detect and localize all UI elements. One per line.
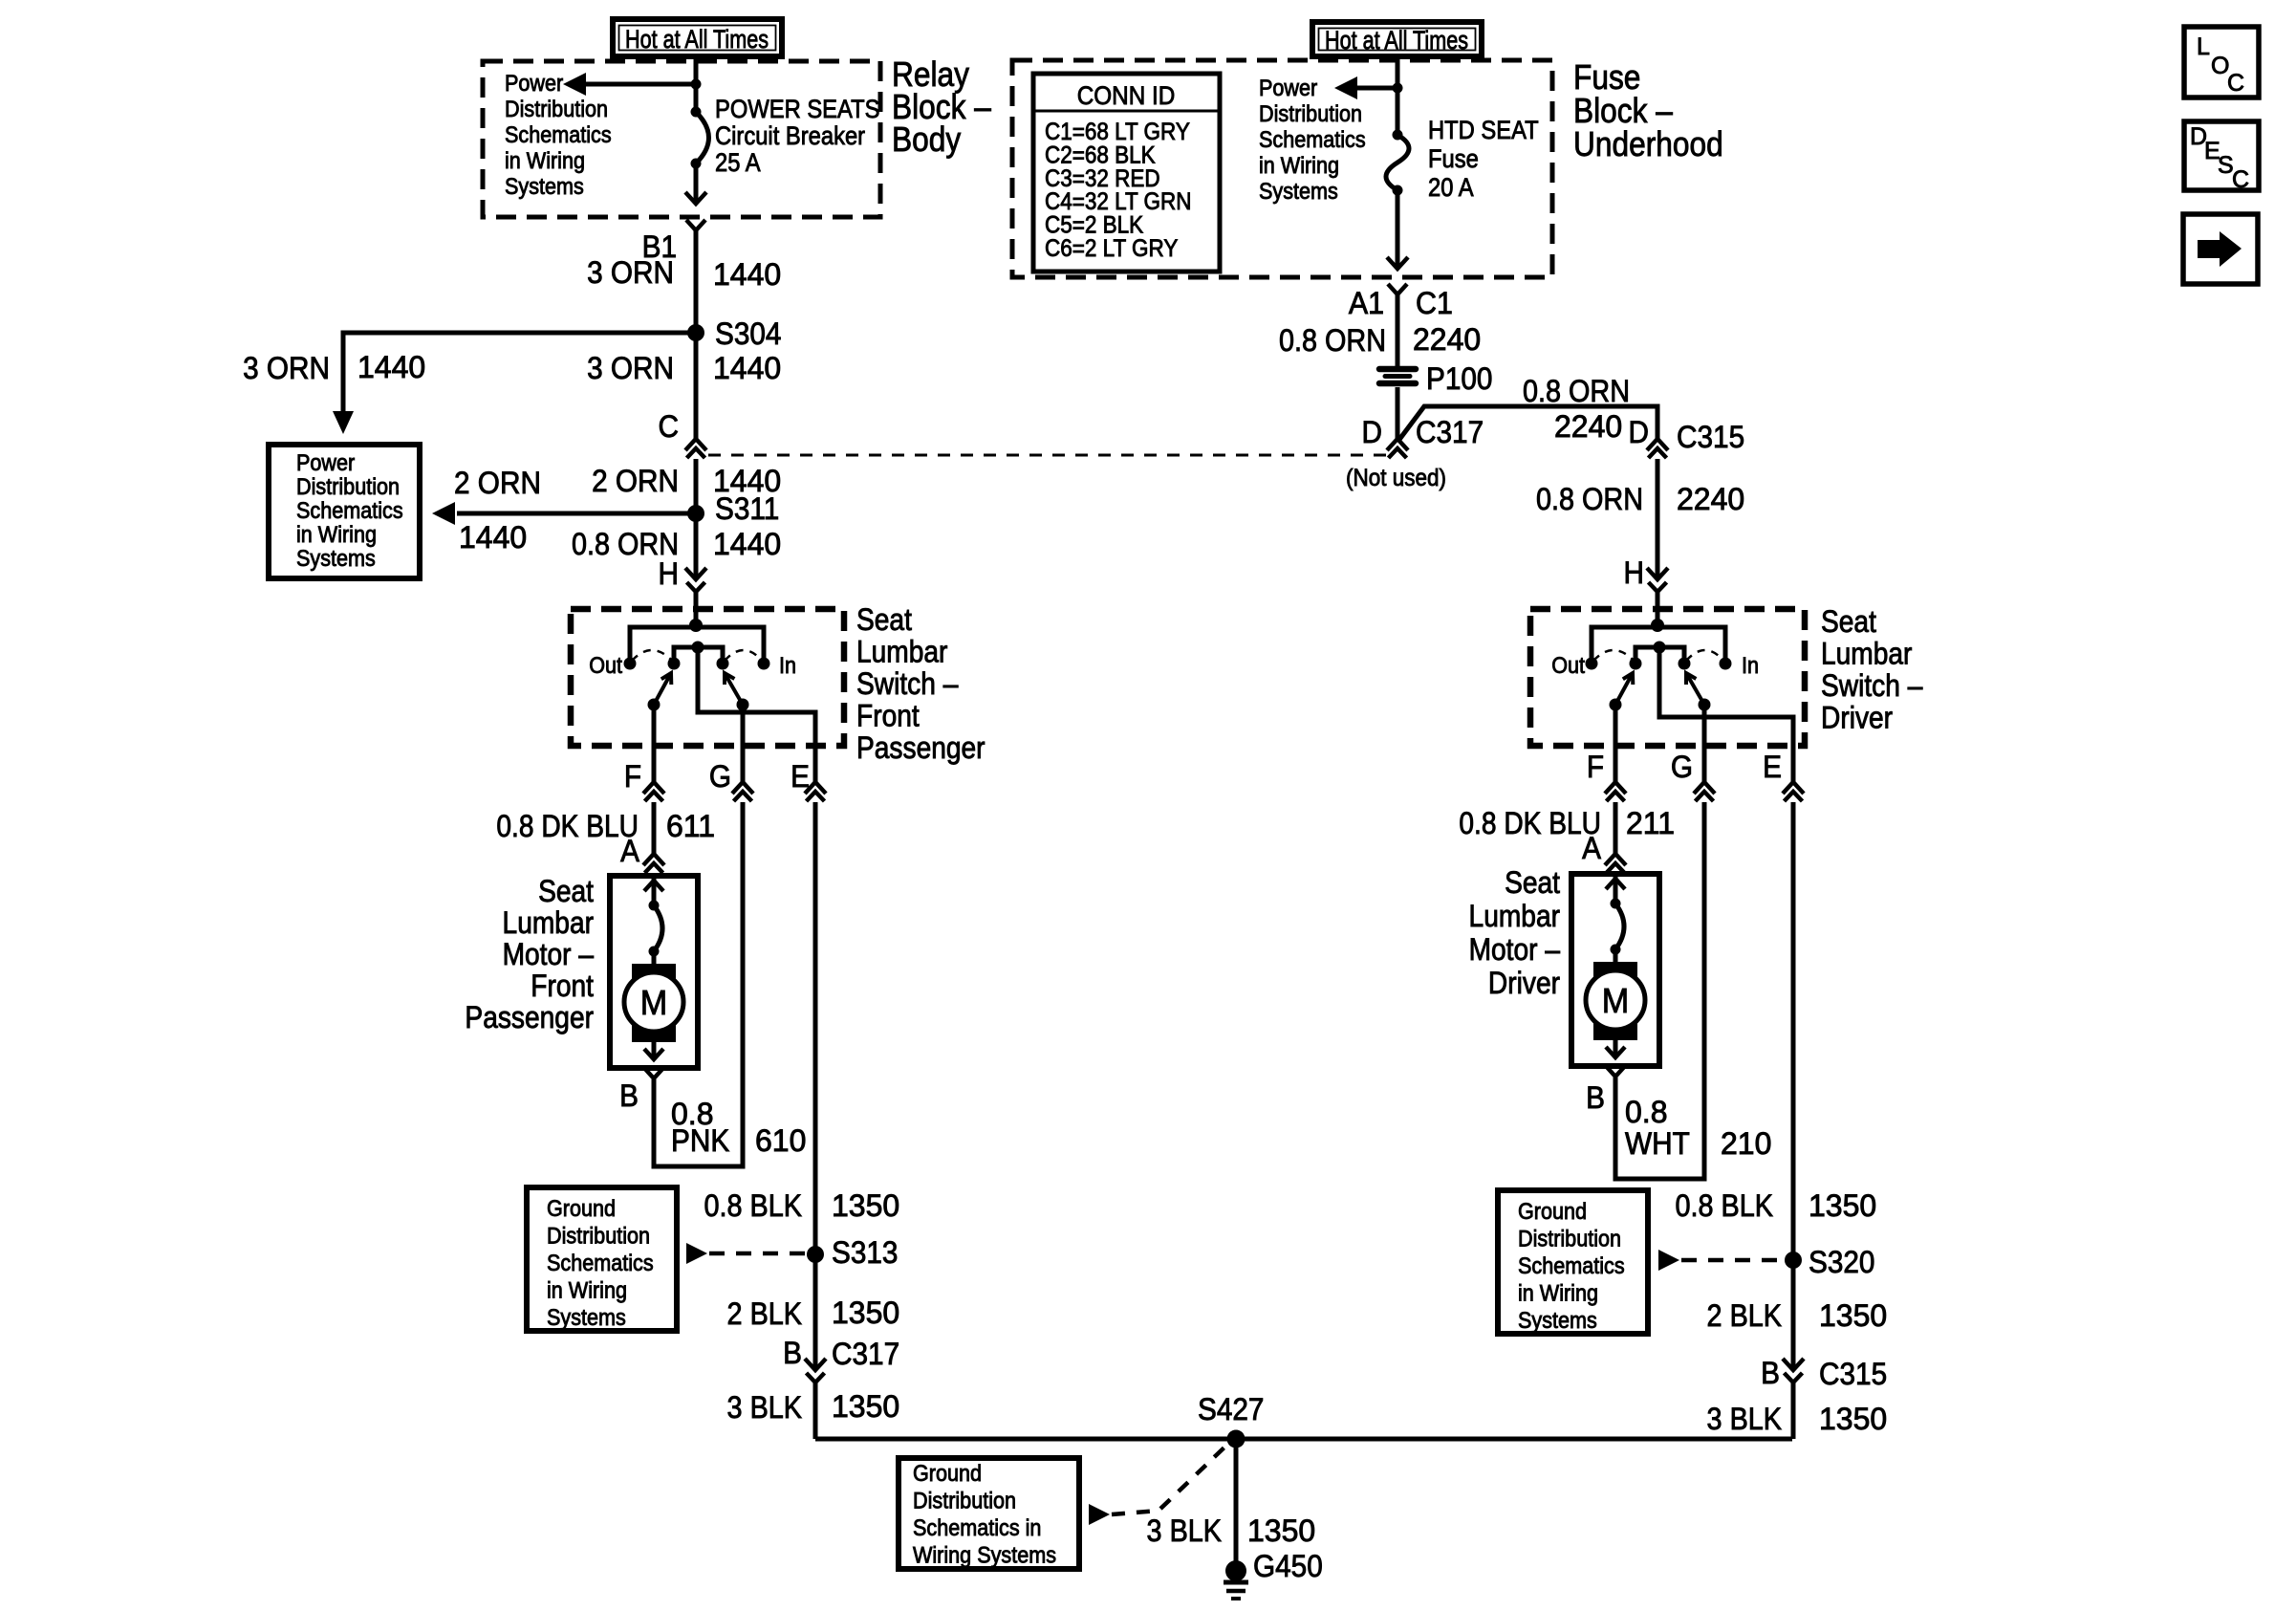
svg-text:Power: Power — [1259, 75, 1318, 100]
svg-text:P100: P100 — [1426, 361, 1492, 396]
wire F to motor A (0.8 DK BLU 611) — [652, 802, 657, 854]
svg-text:3 ORN: 3 ORN — [587, 255, 674, 290]
label HTD SEAT Fuse 20 A — [1428, 117, 1539, 203]
switch contacts and arms (driver) — [1586, 619, 1732, 711]
connector H (passenger switch) — [659, 556, 706, 592]
svg-text:Front: Front — [531, 969, 594, 1003]
splice S320 — [1785, 1245, 1874, 1279]
wire C315 to H (0.8 ORN 2240) — [1656, 459, 1660, 579]
wire F to motor A (0.8 DK BLU 211) — [1614, 802, 1618, 854]
wire B1 to S304 (3 ORN 1440) — [694, 230, 699, 333]
connector C315 pin B — [1761, 1356, 1887, 1391]
svg-text:M: M — [1602, 982, 1629, 1020]
wire switch arm to F terminal (driver) — [1614, 705, 1618, 782]
wire C315 to ground bus (3 BLK 1350) — [1791, 1382, 1796, 1439]
svg-text:C: C — [2227, 70, 2244, 97]
svg-text:S320: S320 — [1809, 1245, 1874, 1279]
label Seat Lumbar Motor - Front Passenger — [465, 875, 594, 1034]
svg-text:Underhood: Underhood — [1573, 125, 1723, 163]
svg-text:2240: 2240 — [1413, 322, 1481, 357]
svg-text:in Wiring: in Wiring — [296, 521, 377, 547]
svg-text:0.8 DK BLU: 0.8 DK BLU — [1459, 807, 1601, 840]
svg-text:H: H — [659, 556, 679, 591]
svg-text:1350: 1350 — [1809, 1188, 1876, 1223]
svg-text:611: 611 — [666, 809, 715, 843]
fuse HTD SEAT 20 A — [1386, 130, 1409, 196]
svg-text:HTD SEAT: HTD SEAT — [1428, 117, 1539, 145]
svg-text:2 ORN: 2 ORN — [592, 464, 679, 498]
dashed wire C to C317 (not used) — [708, 454, 1386, 457]
svg-text:(Not used): (Not used) — [1346, 465, 1446, 491]
wire motor B to switch G (0.8 PNK 610) — [654, 802, 743, 1166]
svg-text:610: 610 — [755, 1123, 806, 1158]
svg-text:C317: C317 — [832, 1337, 899, 1371]
connector E (passenger) — [791, 759, 826, 801]
dashed leader ground distribution to S320 — [1658, 1250, 1785, 1271]
svg-text:G450: G450 — [1253, 1549, 1323, 1583]
svg-text:G: G — [1671, 750, 1693, 784]
label 3 ORN 1440 (above S304) — [587, 255, 781, 292]
svg-text:3 BLK: 3 BLK — [1707, 1403, 1782, 1437]
label 2 BLK 1350 (passenger) — [727, 1295, 900, 1331]
label 0.8 ORN 1440 (below S311) — [572, 527, 781, 561]
connector A (driver motor) — [1582, 831, 1626, 873]
wire E to S320 (0.8 BLK 1350) — [1791, 802, 1796, 1260]
svg-text:Systems: Systems — [1259, 178, 1338, 204]
connector C315 pin D — [1629, 415, 1745, 458]
label 0.8 ORN 2240 (above driver H) — [1536, 482, 1744, 516]
svg-text:0.8 ORN: 0.8 ORN — [1279, 324, 1386, 359]
svg-text:H: H — [1624, 555, 1644, 590]
label Relay Block - Body — [892, 55, 991, 159]
svg-text:Wiring Systems: Wiring Systems — [913, 1541, 1056, 1567]
switch box Seat Lumbar Switch - Driver (dashed) — [1530, 609, 1805, 746]
svg-text:Seat: Seat — [538, 875, 594, 908]
svg-text:B: B — [1761, 1356, 1780, 1390]
svg-text:20 A: 20 A — [1428, 174, 1474, 203]
svg-text:C: C — [2232, 166, 2249, 193]
box Ground Distribution Schematics in Wiring Systems (driver) — [1498, 1190, 1648, 1334]
svg-text:in Wiring: in Wiring — [1259, 152, 1339, 178]
svg-text:2240: 2240 — [1677, 482, 1744, 516]
connector B1 relay block (chevron) — [686, 220, 705, 230]
dashed leader ground distribution to S313 — [686, 1243, 808, 1264]
wire C317 to ground bus (3 BLK 1350) — [813, 1382, 818, 1439]
svg-text:Schematics: Schematics — [505, 121, 612, 147]
svg-text:S313: S313 — [832, 1235, 898, 1270]
arrow to power distribution schematics (relay block) — [563, 73, 696, 96]
svg-text:Driver: Driver — [1821, 702, 1893, 735]
svg-text:Systems: Systems — [505, 173, 584, 199]
arrow to power distribution schematics (fuse block) — [1334, 76, 1397, 99]
svg-text:1440: 1440 — [459, 520, 527, 555]
wire A into motor (driver) — [1614, 874, 1618, 879]
icon forward arrow — [2183, 214, 2258, 284]
svg-text:Schematics: Schematics — [1259, 126, 1366, 152]
svg-text:Ground: Ground — [547, 1195, 616, 1221]
wire S427 to G450 (3 BLK 1350) — [1234, 1439, 1239, 1562]
svg-text:2 BLK: 2 BLK — [1707, 1299, 1782, 1334]
label 2 ORN 1440 (above S311) — [592, 464, 781, 498]
label 3 ORN 1440 (branch) — [243, 350, 425, 385]
node feed tap in relay block — [691, 79, 702, 90]
svg-text:Body: Body — [892, 120, 961, 159]
svg-text:Systems: Systems — [547, 1304, 626, 1330]
label 0.8 ORN 2240 (branch) — [1523, 375, 1630, 444]
wire from Hot at All Times into fuse block — [1396, 56, 1400, 135]
svg-text:Ground: Ground — [913, 1460, 982, 1486]
node feed tap in fuse block — [1393, 83, 1403, 94]
connector E (driver) — [1763, 750, 1804, 801]
svg-text:S427: S427 — [1198, 1392, 1264, 1426]
motor M Seat Lumbar Motor - Front Passenger — [610, 876, 698, 1078]
svg-text:3 ORN: 3 ORN — [587, 351, 674, 385]
svg-text:E: E — [1763, 750, 1782, 784]
svg-text:Out: Out — [1551, 652, 1585, 678]
wire switch common to E (driver) — [1659, 647, 1793, 782]
label In (driver) — [1742, 652, 1759, 678]
switch contacts and arms (passenger) — [624, 619, 770, 711]
svg-text:Schematics: Schematics — [547, 1250, 654, 1275]
box Ground Distribution Schematics in Wiring Systems (passenger) — [527, 1187, 677, 1331]
wire H into driver switch — [1656, 592, 1660, 625]
connector C (in-line) — [659, 409, 706, 458]
svg-text:Hot at All Times: Hot at All Times — [1325, 27, 1468, 55]
svg-text:Power: Power — [505, 70, 564, 96]
svg-text:A1: A1 — [1349, 286, 1384, 320]
connector A (passenger motor) — [620, 834, 664, 873]
svg-text:Out: Out — [589, 652, 622, 678]
svg-text:L: L — [2197, 33, 2210, 60]
svg-text:in Wiring: in Wiring — [1518, 1279, 1598, 1305]
svg-text:C315: C315 — [1819, 1357, 1887, 1391]
svg-text:M: M — [640, 984, 667, 1022]
svg-text:F: F — [624, 759, 641, 794]
label Seat Lumbar Switch - Front Passenger — [856, 603, 986, 765]
wire S304 branch to power distribution (3 ORN 1440) — [333, 333, 696, 434]
svg-text:1440: 1440 — [713, 257, 781, 292]
label 0.8 WHT 210 — [1625, 1095, 1771, 1161]
svg-text:Distribution: Distribution — [1259, 100, 1362, 126]
table CONN ID — [1033, 74, 1220, 272]
wire branch P100 to C315 (0.8 ORN 2240) — [1398, 406, 1657, 441]
svg-text:0.8 DK BLU: 0.8 DK BLU — [496, 810, 639, 843]
box Ground Distribution Schematics in Wiring Systems (bus) — [899, 1458, 1079, 1569]
svg-text:Passenger: Passenger — [856, 731, 986, 765]
svg-text:in Wiring: in Wiring — [547, 1276, 627, 1302]
svg-text:1440: 1440 — [357, 350, 425, 384]
svg-text:WHT: WHT — [1625, 1126, 1690, 1161]
label 2 BLK 1350 (driver) — [1707, 1298, 1888, 1333]
svg-text:A: A — [620, 834, 639, 868]
svg-text:1350: 1350 — [832, 1295, 899, 1330]
connector G (passenger) — [709, 759, 753, 801]
icon DESC — [2184, 121, 2259, 193]
label In (passenger) — [779, 652, 796, 678]
svg-text:In: In — [779, 652, 796, 678]
label B (passenger motor) — [619, 1078, 639, 1113]
switch box Seat Lumbar Switch - Front Passenger (dashed) — [571, 609, 844, 746]
svg-text:C315: C315 — [1677, 420, 1744, 454]
wire switch arm to G terminal (passenger) — [741, 705, 746, 782]
svg-text:Front: Front — [856, 700, 920, 733]
connector C317 pin B — [783, 1336, 899, 1382]
svg-text:Lumbar: Lumbar — [1469, 900, 1560, 933]
svg-text:0.8 BLK: 0.8 BLK — [1676, 1189, 1773, 1224]
splice S313 — [807, 1235, 898, 1270]
svg-text:Systems: Systems — [1518, 1307, 1597, 1333]
svg-text:Ground: Ground — [1518, 1198, 1587, 1224]
wire switch common to E (passenger) — [698, 647, 815, 782]
ground bus wire — [815, 1437, 1792, 1442]
svg-text:Distribution: Distribution — [505, 96, 608, 121]
svg-text:3 ORN: 3 ORN — [243, 351, 330, 385]
svg-text:1350: 1350 — [1819, 1298, 1887, 1333]
svg-text:1350: 1350 — [832, 1188, 899, 1223]
svg-text:G: G — [709, 759, 731, 794]
svg-text:Seat: Seat — [1821, 605, 1876, 639]
svg-text:S311: S311 — [715, 491, 779, 526]
svg-text:Lumbar: Lumbar — [1821, 638, 1912, 671]
svg-text:Systems: Systems — [296, 545, 376, 571]
svg-text:3 BLK: 3 BLK — [727, 1391, 802, 1426]
note Power Distribution Schematics in Wiring Systems (fuse block) — [1259, 75, 1366, 204]
label 0.8 DK BLU 211 — [1459, 806, 1675, 840]
wire H into passenger switch — [694, 592, 699, 625]
label 0.8 BLK 1350 (passenger) — [704, 1188, 900, 1223]
svg-text:Power: Power — [296, 449, 356, 475]
svg-text:Schematics in: Schematics in — [913, 1514, 1041, 1540]
arrow S311 to power distribution (2 ORN 1440) — [432, 466, 696, 555]
splice S311 — [687, 491, 779, 526]
motor M Seat Lumbar Motor - Driver — [1571, 874, 1659, 1077]
svg-text:S304: S304 — [715, 316, 781, 351]
svg-text:1440: 1440 — [713, 527, 781, 561]
svg-text:in Wiring: in Wiring — [505, 147, 585, 173]
grommet P100 — [1379, 361, 1492, 396]
svg-text:B: B — [783, 1336, 802, 1370]
svg-text:0.8: 0.8 — [1625, 1095, 1667, 1129]
wire switch arm to F terminal (passenger) — [652, 705, 657, 782]
svg-text:C6=2 LT GRY: C6=2 LT GRY — [1045, 235, 1178, 262]
svg-text:Passenger: Passenger — [465, 1001, 594, 1034]
svg-text:CONN ID: CONN ID — [1077, 82, 1176, 110]
svg-text:1440: 1440 — [713, 351, 781, 385]
connector G (driver) — [1671, 750, 1715, 801]
power label box Hot at All Times (underhood) — [1312, 22, 1482, 56]
splice S304 — [687, 316, 781, 351]
svg-text:Motor –: Motor – — [503, 938, 595, 971]
label 0.8 PNK 610 — [671, 1097, 806, 1158]
svg-text:PNK: PNK — [671, 1123, 730, 1158]
label B (driver motor) — [1586, 1080, 1605, 1115]
svg-text:Schematics: Schematics — [296, 497, 403, 523]
wire S320 to C315 (2 BLK 1350) — [1791, 1260, 1796, 1370]
label Fuse Block - Underhood — [1573, 58, 1723, 163]
svg-text:D: D — [1629, 415, 1649, 449]
svg-text:F: F — [1587, 750, 1604, 784]
svg-text:Seat: Seat — [1505, 866, 1560, 900]
svg-text:Circuit Breaker: Circuit Breaker — [715, 122, 866, 151]
svg-text:Hot at All Times: Hot at All Times — [625, 26, 769, 54]
wire from Hot at All Times into relay block — [694, 56, 699, 112]
svg-text:210: 210 — [1721, 1126, 1771, 1161]
wire motor B to switch G (0.8 WHT 210) — [1615, 802, 1704, 1179]
wire switch arm to G terminal (driver) — [1702, 705, 1707, 782]
wire S304 to connector C (3 ORN 1440) — [694, 333, 699, 439]
note (Not used) — [1346, 465, 1446, 491]
svg-text:2 BLK: 2 BLK — [727, 1297, 802, 1332]
wire breaker to relay block edge — [685, 163, 706, 204]
svg-text:1350: 1350 — [1819, 1402, 1887, 1436]
svg-text:25 A: 25 A — [715, 149, 761, 178]
svg-text:3 BLK: 3 BLK — [1147, 1514, 1222, 1549]
svg-text:2240: 2240 — [1554, 409, 1622, 444]
label 3 BLK 1350 (passenger) — [727, 1389, 900, 1425]
svg-text:A: A — [1582, 831, 1601, 865]
wire S311 to H (0.8 ORN 1440) — [694, 513, 699, 579]
svg-text:211: 211 — [1626, 806, 1675, 840]
label Seat Lumbar Motor - Driver — [1469, 866, 1561, 1000]
svg-text:Lumbar: Lumbar — [856, 636, 947, 669]
relay block dashed outline Relay Block - Body — [483, 61, 880, 217]
svg-text:C1: C1 — [1416, 286, 1453, 320]
box Power Distribution Schematics in Wiring Systems — [269, 445, 420, 578]
label B1 — [642, 229, 677, 264]
svg-text:1350: 1350 — [1247, 1513, 1315, 1548]
wire fuse to block edge — [1387, 190, 1408, 269]
svg-text:Distribution: Distribution — [1518, 1225, 1621, 1251]
label Out (driver) — [1551, 652, 1585, 678]
svg-text:Driver: Driver — [1488, 967, 1560, 1000]
wire C1 to P100 (0.8 ORN 2240) — [1396, 294, 1400, 367]
svg-text:Seat: Seat — [856, 603, 912, 637]
wire A into motor (passenger) — [652, 874, 657, 881]
svg-text:C317: C317 — [1416, 415, 1484, 449]
wire C to S311 (2 ORN 1440) — [694, 459, 699, 513]
connector C317 pin D (not used) — [1362, 415, 1484, 458]
svg-text:Lumbar: Lumbar — [503, 906, 594, 940]
circuit breaker POWER SEATS 25 A — [691, 107, 709, 169]
label 3 BLK 1350 (ground drop) — [1147, 1513, 1316, 1548]
svg-text:B: B — [619, 1078, 639, 1113]
label Seat Lumbar Switch - Driver — [1821, 605, 1923, 735]
wire S313 to C317 (2 BLK 1350) — [813, 1254, 818, 1370]
label 0.8 DK BLU 611 — [496, 809, 715, 843]
svg-text:0.8 ORN: 0.8 ORN — [1536, 483, 1643, 517]
svg-text:1350: 1350 — [832, 1389, 899, 1424]
icon LOC — [2184, 27, 2259, 98]
splice S427 — [1198, 1392, 1264, 1448]
connector F (driver) — [1587, 750, 1626, 801]
label 0.8 BLK 1350 (driver) — [1676, 1188, 1877, 1223]
fuse block dashed outline Fuse Block - Underhood — [1012, 60, 1552, 277]
svg-text:0.8 ORN: 0.8 ORN — [1523, 375, 1630, 409]
dashed leader ground distribution to S427 — [1089, 1442, 1230, 1525]
note Power Distribution Schematics in Wiring Systems (relay block) — [505, 70, 612, 199]
svg-text:In: In — [1742, 652, 1759, 678]
label 0.8 ORN 2240 (above P100) — [1279, 322, 1481, 358]
svg-text:B: B — [1586, 1080, 1605, 1115]
svg-text:Schematics: Schematics — [1518, 1252, 1625, 1278]
connector F (passenger) — [624, 759, 664, 801]
svg-text:POWER SEATS: POWER SEATS — [715, 96, 879, 124]
connector C1 pin A1 (chevron) — [1388, 284, 1407, 294]
svg-text:Distribution: Distribution — [547, 1222, 650, 1248]
wire P100 to C317 — [1396, 387, 1400, 439]
connector H (driver switch) — [1624, 555, 1668, 592]
label 3 BLK 1350 (driver) — [1707, 1402, 1888, 1436]
svg-text:2 ORN: 2 ORN — [454, 466, 541, 500]
svg-text:Switch –: Switch – — [856, 667, 959, 701]
svg-text:Fuse: Fuse — [1428, 145, 1479, 174]
svg-text:Distribution: Distribution — [913, 1487, 1016, 1513]
label 3 ORN 1440 (below S304) — [587, 351, 781, 385]
label Out (passenger) — [589, 652, 622, 678]
power label box Hot at All Times (body) — [613, 19, 782, 56]
svg-text:C: C — [659, 409, 679, 444]
ground G450 — [1224, 1549, 1323, 1599]
svg-text:D: D — [1362, 415, 1382, 449]
svg-text:Motor –: Motor – — [1469, 933, 1561, 967]
label POWER SEATS Circuit Breaker 25 A — [715, 96, 879, 178]
wire E to S313 (0.8 BLK 1350) — [813, 802, 818, 1254]
label A1 C1 — [1349, 286, 1453, 320]
svg-text:Switch –: Switch – — [1821, 669, 1923, 703]
svg-text:0.8 BLK: 0.8 BLK — [704, 1189, 802, 1224]
svg-text:Distribution: Distribution — [296, 473, 400, 499]
